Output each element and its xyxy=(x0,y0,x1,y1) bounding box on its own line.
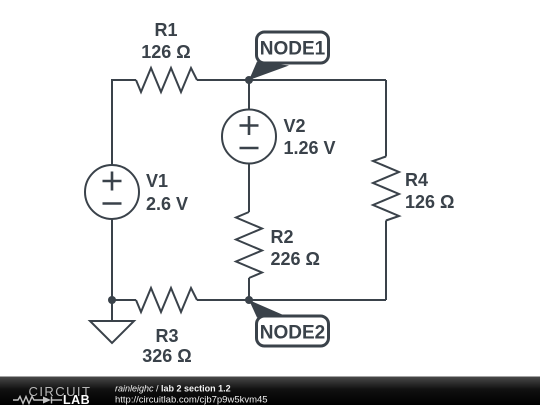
svg-text:R4: R4 xyxy=(405,170,428,190)
wire right vertical lower xyxy=(385,221,387,301)
voltage source V2 xyxy=(222,110,276,164)
resistor R2 xyxy=(236,212,262,278)
label V2 xyxy=(284,116,336,158)
svg-text:R2: R2 xyxy=(271,227,294,247)
V2 plus sign xyxy=(240,116,259,135)
svg-text:326 Ω: 326 Ω xyxy=(142,346,191,366)
junction node dot at NODE1 xyxy=(245,76,253,84)
resistor R4 xyxy=(373,157,399,221)
wire left vertical lower (V1 to ground node) xyxy=(111,219,113,300)
label R2 xyxy=(271,227,320,269)
svg-text:V1: V1 xyxy=(146,171,168,191)
footer logo wire-resistor-diode glyph xyxy=(13,397,62,404)
svg-text:rainleighc / lab 2 section 1.2: rainleighc / lab 2 section 1.2 xyxy=(115,384,231,394)
wire top horizontal (R1 to right corner) xyxy=(197,79,386,81)
V1 plus sign xyxy=(103,172,122,191)
label R4 xyxy=(405,170,454,212)
wire V2 stub top xyxy=(248,80,250,110)
svg-text:126 Ω: 126 Ω xyxy=(405,192,454,212)
voltage source V1 xyxy=(85,165,139,219)
wire V2 to R2 xyxy=(248,164,250,213)
svg-text:LAB: LAB xyxy=(63,393,90,405)
svg-text:NODE2: NODE2 xyxy=(260,323,325,344)
resistor R1 xyxy=(136,68,197,92)
junction node dot at ground net xyxy=(108,296,116,304)
node NODE2 callout wedge xyxy=(249,300,289,318)
svg-text:R3: R3 xyxy=(155,326,178,346)
svg-text:NODE1: NODE1 xyxy=(260,39,326,60)
wire R2 to bottom xyxy=(248,278,250,300)
wire right vertical upper xyxy=(385,80,387,157)
svg-text:2.6 V: 2.6 V xyxy=(146,194,188,214)
wire bottom horizontal (node2 net) xyxy=(197,299,386,301)
V1 minus sign xyxy=(103,202,122,205)
wire bottom-left stub to ground junction xyxy=(112,299,136,301)
wire top-left horizontal (node1 net, left segment) xyxy=(112,80,136,165)
junction node dot at NODE2 xyxy=(245,296,253,304)
resistor R3 xyxy=(136,288,197,312)
V2 minus sign xyxy=(240,147,259,150)
svg-text:V2: V2 xyxy=(284,116,306,136)
ground stub xyxy=(111,300,113,321)
node NODE1 callout box xyxy=(257,32,329,63)
svg-text:R1: R1 xyxy=(154,20,177,40)
label V1 xyxy=(146,171,188,214)
label R1 xyxy=(141,20,190,62)
svg-text:1.26 V: 1.26 V xyxy=(284,138,336,158)
svg-text:226 Ω: 226 Ω xyxy=(271,249,320,269)
svg-text:126 Ω: 126 Ω xyxy=(141,42,190,62)
ground symbol triangle xyxy=(90,321,134,343)
svg-text:http://circuitlab.com/cjb7p9w5: http://circuitlab.com/cjb7p9w5kvm45 xyxy=(115,395,268,405)
label R3 xyxy=(142,326,191,366)
node NODE2 callout box xyxy=(257,316,329,346)
node NODE1 callout wedge xyxy=(249,62,289,81)
